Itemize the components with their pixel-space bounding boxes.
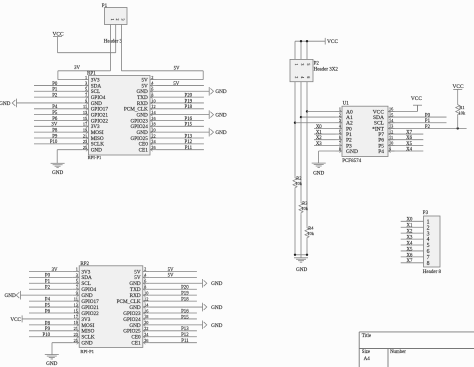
wire VCC to P1 pin 2	[58, 25, 116, 53]
svg-text:20: 20	[144, 320, 148, 325]
wire/net P20 RP1 pin 8	[157, 94, 204, 99]
svg-text:P9: P9	[52, 134, 58, 139]
svg-text:26: 26	[151, 145, 156, 150]
wire/net X4 to P3 pin 5	[401, 241, 424, 246]
connector P1 Header 3	[102, 4, 127, 25]
node junction A1 on column B	[300, 116, 302, 118]
svg-text:P15: P15	[181, 315, 189, 320]
wire/net P19 RP1 pin 10	[157, 99, 204, 104]
svg-text:8: 8	[427, 261, 430, 267]
svg-text:10k: 10k	[459, 110, 466, 115]
wire/net X2 to U1 pin 6	[314, 136, 336, 141]
svg-text:P11: P11	[185, 146, 193, 151]
svg-text:GND: GND	[211, 305, 222, 311]
wire/net X6 U1 pin 11	[388, 136, 423, 141]
wire RP1 pin25 to ground	[57, 150, 82, 164]
wire/net P10 to RP1 pin 23	[34, 140, 82, 145]
svg-text:6: 6	[339, 135, 342, 140]
svg-text:P3: P3	[423, 211, 429, 216]
net 3V rail	[58, 66, 111, 79]
svg-text:VCC: VCC	[10, 317, 21, 323]
svg-text:GND: GND	[91, 148, 102, 154]
resistor R4 10k	[305, 226, 315, 240]
svg-text:10: 10	[144, 290, 148, 295]
power port VCC (top left)	[52, 31, 63, 52]
wire RP1 pin1 3V	[58, 79, 82, 81]
connector P3 Header 8	[423, 211, 442, 275]
svg-text:10: 10	[151, 98, 155, 103]
wire R1 to P2 net	[457, 116, 459, 128]
wire/net P4 RP2 pin 11	[29, 298, 73, 303]
svg-text:P10: P10	[43, 333, 51, 338]
svg-text:P2: P2	[425, 125, 431, 130]
svg-text:14: 14	[389, 118, 394, 123]
node junction A0 on column C	[306, 110, 308, 112]
svg-text:X5: X5	[407, 247, 413, 252]
svg-text:21: 21	[83, 133, 87, 138]
svg-text:P6: P6	[45, 309, 51, 314]
wire/net P11 RP1 pin 26	[157, 146, 204, 151]
svg-text:P1: P1	[45, 280, 51, 285]
svg-text:P13: P13	[185, 134, 193, 139]
wire/net P19 RP2 pin 10	[149, 292, 197, 297]
wire/net P6 RP2 pin 15	[29, 309, 73, 314]
svg-text:X7: X7	[407, 259, 413, 264]
wire/net X0 to P3 pin 1	[401, 218, 424, 223]
svg-text:GND: GND	[346, 149, 358, 155]
wire A0 to column C	[307, 110, 336, 112]
svg-text:16: 16	[389, 107, 394, 112]
wire/net P1 to RP1 pin 5	[34, 88, 82, 93]
svg-text:10k: 10k	[295, 181, 302, 186]
svg-text:X3: X3	[407, 235, 413, 240]
svg-text:GND: GND	[211, 323, 222, 329]
svg-text:14: 14	[151, 110, 156, 115]
svg-text:X4: X4	[407, 241, 413, 246]
svg-text:6: 6	[151, 87, 154, 92]
wire/net P5 to RP1 pin 13	[34, 111, 82, 116]
label Header 3	[104, 39, 123, 44]
wire/net P6 to RP1 pin 15	[34, 117, 82, 122]
wire/net P16 RP1 pin 16	[157, 117, 204, 122]
svg-text:3: 3	[121, 19, 126, 21]
ground symbol below resistors	[294, 258, 308, 273]
svg-text:P1: P1	[102, 4, 108, 9]
svg-text:GND: GND	[5, 293, 16, 299]
wire/net P2 U1 *INT to R1	[388, 125, 467, 130]
svg-text:5V: 5V	[168, 274, 174, 279]
svg-text:P12: P12	[185, 140, 193, 145]
wire RP2 pin25 to ground	[52, 343, 73, 355]
svg-text:10k: 10k	[307, 231, 314, 236]
svg-text:1: 1	[294, 64, 298, 66]
svg-text:P6: P6	[52, 117, 58, 122]
wire A1 to column B	[301, 116, 336, 118]
svg-text:X2: X2	[407, 230, 413, 235]
svg-text:P13: P13	[181, 327, 189, 332]
ground GND arrow right of RP1 pin 20	[157, 128, 227, 137]
svg-text:P2: P2	[45, 286, 51, 291]
svg-text:P19: P19	[185, 99, 193, 104]
resistor R2 10k	[293, 176, 303, 190]
wire/net X3 to U1 pin 7	[314, 142, 336, 147]
svg-text:22: 22	[144, 326, 148, 331]
svg-text:P16: P16	[181, 309, 189, 314]
svg-text:11: 11	[83, 104, 87, 109]
wire/net P0 to RP1 pin 3	[34, 82, 82, 87]
svg-text:P10: P10	[50, 140, 58, 145]
wire/net X7 U1 pin 12	[388, 130, 423, 135]
svg-text:P4: P4	[52, 105, 58, 110]
svg-text:R4: R4	[308, 226, 314, 231]
net 5V rail	[121, 66, 203, 79]
svg-text:GND: GND	[215, 89, 226, 95]
wire/net P2 RP2 pin 7	[29, 286, 73, 291]
svg-text:P1: P1	[52, 88, 58, 93]
svg-text:5: 5	[306, 64, 310, 66]
svg-text:Title: Title	[362, 334, 372, 339]
wire P2 column A (x=295) down to resistor R2	[294, 82, 296, 177]
wire/net P12 RP1 pin 24	[157, 140, 204, 145]
svg-text:R2: R2	[296, 176, 301, 181]
svg-text:X6: X6	[406, 136, 412, 141]
svg-text:2: 2	[151, 75, 153, 80]
svg-text:P2: P2	[314, 62, 320, 67]
svg-text:P5: P5	[45, 303, 51, 308]
svg-text:19: 19	[83, 127, 87, 132]
wire/net P15 RP2 pin 18	[149, 315, 197, 320]
power port VCC at RP2 pin 17	[10, 315, 72, 322]
svg-text:X0: X0	[407, 218, 413, 223]
svg-text:A4: A4	[364, 357, 371, 362]
ground GND arrow right of RP2 pin 20	[149, 321, 222, 330]
svg-text:16: 16	[151, 116, 156, 121]
svg-text:6: 6	[144, 279, 147, 284]
svg-text:GND: GND	[215, 130, 226, 136]
svg-text:Size: Size	[362, 350, 370, 355]
svg-text:14: 14	[144, 302, 149, 307]
wire P2 column B (x=301) down to resistor R3	[300, 82, 302, 202]
svg-text:12: 12	[151, 104, 155, 109]
svg-text:P18: P18	[185, 105, 193, 110]
ground symbol below RP1	[51, 163, 65, 176]
svg-text:10: 10	[389, 141, 393, 146]
svg-text:11: 11	[74, 296, 78, 301]
ground GND arrow right of RP2 pin 14	[149, 303, 222, 312]
svg-text:3V: 3V	[74, 66, 80, 71]
svg-text:GND: GND	[0, 101, 11, 107]
wire VCC feed for P2 header	[295, 41, 325, 59]
wire/net P0 RP2 pin 3	[29, 274, 73, 279]
wire/net X2 to P3 pin 3	[401, 230, 424, 235]
svg-text:X6: X6	[407, 253, 413, 258]
wire/net 3V to RP1 pin 17	[34, 123, 82, 128]
svg-text:3: 3	[300, 64, 304, 66]
svg-text:24: 24	[151, 139, 156, 144]
wire/net P11 RP2 pin 26	[149, 339, 197, 344]
title block text Title	[362, 334, 372, 339]
svg-text:GND: GND	[52, 170, 63, 176]
wire/net P13 RP2 pin 22	[149, 327, 197, 332]
wire bottom tie of pull resistors	[295, 255, 307, 258]
resistor R3 10k	[299, 201, 309, 215]
svg-text:13: 13	[83, 110, 87, 115]
wire/net P12 RP2 pin 24	[149, 333, 197, 338]
IC RP1 RPi-P1 connector block	[82, 72, 157, 161]
ground GND arrow right of RP2 pin 6	[149, 279, 222, 288]
svg-text:GND: GND	[81, 341, 92, 347]
ground symbol below RP2	[45, 355, 59, 367]
svg-text:P4: P4	[45, 298, 51, 303]
svg-text:P1: P1	[425, 119, 431, 124]
svg-text:24: 24	[144, 332, 149, 337]
svg-text:X1: X1	[407, 224, 413, 229]
wire/net X1 to P3 pin 2	[401, 224, 424, 229]
svg-text:21: 21	[74, 326, 78, 331]
wire/net P18 RP1 pin 12	[157, 105, 204, 110]
wire/net X4 U1 pin 9	[388, 147, 423, 152]
svg-text:12: 12	[389, 129, 393, 134]
power port VCC right of P2	[325, 38, 338, 45]
svg-text:4: 4	[151, 81, 154, 86]
svg-text:25: 25	[74, 338, 78, 343]
svg-text:P5: P5	[52, 111, 58, 116]
title block text Size	[362, 350, 370, 355]
svg-text:P18: P18	[181, 298, 189, 303]
svg-text:15: 15	[83, 116, 87, 121]
svg-text:U1: U1	[343, 101, 350, 106]
wire/net 5V RP2 pin2	[149, 268, 197, 273]
svg-text:P9: P9	[45, 327, 51, 332]
connector P2 Header 3X2	[290, 59, 338, 81]
ground GND arrow left of RP2 pin 9	[5, 291, 73, 300]
wire/net X3 to P3 pin 4	[401, 235, 424, 240]
wire A2 to column A	[295, 122, 336, 124]
svg-text:5V: 5V	[173, 82, 179, 87]
wire/net P0 U1 SDA	[388, 113, 447, 118]
svg-text:3V: 3V	[51, 123, 57, 128]
wire/net X7 to P3 pin 8	[401, 259, 424, 264]
svg-text:P11: P11	[181, 339, 189, 344]
node junction A2 on column A	[294, 122, 296, 124]
svg-text:P12: P12	[181, 333, 189, 338]
svg-text:26: 26	[144, 338, 149, 343]
svg-text:P20: P20	[181, 286, 189, 291]
svg-text:4: 4	[144, 273, 147, 278]
svg-text:13: 13	[74, 302, 78, 307]
wire/net P16 RP2 pin 16	[149, 309, 197, 314]
wire/net P10 RP2 pin 23	[29, 333, 73, 338]
svg-text:19: 19	[74, 320, 78, 325]
wire/net X6 to P3 pin 7	[401, 253, 424, 258]
svg-text:25: 25	[83, 145, 87, 150]
svg-text:GND: GND	[46, 361, 57, 367]
svg-text:X2: X2	[316, 136, 322, 141]
svg-text:P8: P8	[52, 129, 58, 134]
svg-text:15: 15	[389, 112, 393, 117]
svg-text:X4: X4	[406, 147, 412, 152]
svg-text:Header 8: Header 8	[423, 270, 442, 275]
wire R4 to bottom tie	[306, 239, 308, 254]
title block text Number	[390, 350, 406, 355]
svg-text:12: 12	[144, 296, 148, 301]
svg-text:5V: 5V	[168, 268, 174, 273]
svg-text:1: 1	[76, 267, 78, 272]
ground GND arrow right of RP1 pin 6	[157, 87, 227, 96]
svg-text:R3: R3	[302, 201, 308, 206]
svg-text:18: 18	[144, 314, 148, 319]
svg-text:X7: X7	[406, 130, 412, 135]
wire P1 pin 3 to 5V rail	[120, 25, 122, 71]
svg-text:20: 20	[151, 127, 155, 132]
svg-text:5V: 5V	[174, 66, 180, 71]
svg-text:2: 2	[115, 19, 120, 21]
svg-text:P20: P20	[185, 94, 193, 99]
resistor R1 10k	[456, 103, 466, 116]
svg-text:X0: X0	[316, 125, 322, 130]
svg-text:4: 4	[339, 124, 342, 129]
svg-text:10k: 10k	[301, 206, 308, 211]
wire/net X5 U1 pin 10	[388, 142, 423, 147]
svg-text:1: 1	[110, 19, 115, 21]
wire/net P15 RP1 pin 18	[157, 123, 204, 128]
wire/net 5V RP1 pin4	[157, 82, 204, 87]
svg-text:3V: 3V	[52, 268, 58, 273]
wire/net P9 to RP1 pin 21	[34, 134, 82, 139]
wire U1 GND pin 8 to ground	[319, 151, 336, 163]
svg-text:P0: P0	[425, 113, 431, 118]
svg-text:Header 3X2: Header 3X2	[314, 67, 339, 72]
wire/net 5V RP2 pin4	[149, 274, 197, 279]
wire/net P20 RP2 pin 8	[149, 286, 197, 291]
IC RP2 RPi-P1 connector block	[73, 262, 150, 354]
svg-text:16: 16	[144, 308, 149, 313]
svg-text:VCC: VCC	[327, 39, 338, 45]
wire P2 column C (x=307) down to resistor R4	[306, 82, 308, 227]
power port VCC above R1	[452, 84, 463, 103]
svg-text:18: 18	[151, 122, 155, 127]
svg-text:P15: P15	[185, 123, 193, 128]
node junction R1 bottom	[457, 127, 459, 129]
svg-text:7: 7	[339, 141, 342, 146]
ground GND arrow left of RP1 pin 9	[0, 99, 82, 108]
svg-text:VCC: VCC	[411, 96, 422, 102]
svg-text:P4: P4	[378, 149, 384, 155]
wire/net X1 to U1 pin 5	[314, 130, 336, 135]
ground GND arrow right of RP1 pin 14	[157, 110, 227, 119]
wire/net P4 to RP1 pin 11	[34, 105, 82, 110]
svg-text:P16: P16	[185, 117, 193, 122]
svg-text:Header 3: Header 3	[104, 39, 123, 44]
svg-text:X5: X5	[406, 142, 412, 147]
svg-text:GND: GND	[313, 170, 324, 176]
wire/net P8 RP2 pin 19	[29, 321, 73, 326]
wire/net X0 to U1 pin 4	[314, 125, 336, 130]
junction dots on VCC feed	[300, 40, 308, 42]
svg-text:GND: GND	[211, 281, 222, 287]
IC U1 PCF8574	[336, 101, 395, 164]
wire/net P9 RP2 pin 21	[29, 327, 73, 332]
svg-text:23: 23	[74, 332, 78, 337]
svg-text:R1: R1	[459, 105, 464, 110]
svg-text:15: 15	[74, 308, 78, 313]
wire R3 to bottom tie	[300, 214, 302, 254]
wire R2 to bottom tie	[294, 189, 296, 254]
wire/net P2 to RP1 pin 7	[34, 94, 82, 99]
wire/net 3V RP2 pin1	[29, 268, 73, 273]
svg-text:P0: P0	[52, 82, 58, 87]
svg-text:P8: P8	[45, 321, 51, 326]
wire/net P1 U1 SCL	[388, 119, 447, 124]
svg-text:GND: GND	[296, 267, 307, 273]
svg-text:6: 6	[306, 76, 310, 78]
svg-text:CE1: CE1	[131, 341, 141, 347]
junction dots bottom tie	[294, 254, 308, 256]
svg-text:4: 4	[300, 76, 304, 78]
wire P1 pin 1 to 3V rail	[110, 25, 112, 71]
title block frame	[359, 332, 474, 367]
svg-text:X1: X1	[316, 130, 322, 135]
svg-text:23: 23	[83, 139, 87, 144]
svg-text:PCF8574: PCF8574	[342, 159, 361, 164]
svg-text:CE1: CE1	[139, 148, 149, 154]
svg-text:1: 1	[85, 75, 87, 80]
svg-text:2: 2	[294, 76, 298, 78]
wire/net P1 RP2 pin 5	[29, 280, 73, 285]
wire/net P13 RP1 pin 22	[157, 134, 204, 139]
svg-text:22: 22	[151, 133, 155, 138]
wire RP1 pin2 5V to rail	[157, 79, 204, 81]
wire/net X5 to P3 pin 6	[401, 247, 424, 252]
svg-text:P0: P0	[45, 274, 51, 279]
svg-text:P2: P2	[52, 94, 58, 99]
wire/net P18 RP2 pin 12	[149, 298, 197, 303]
svg-text:GND: GND	[215, 113, 226, 119]
svg-text:X3: X3	[316, 142, 322, 147]
wire/net P8 to RP1 pin 19	[34, 129, 82, 134]
wire/net P5 RP2 pin 13	[29, 303, 73, 308]
svg-text:2: 2	[144, 267, 146, 272]
svg-text:RPI-P1: RPI-P1	[88, 155, 102, 160]
svg-text:13: 13	[389, 124, 393, 129]
power port VCC above U1 pin 16	[388, 96, 422, 111]
svg-text:RPI-P1: RPI-P1	[80, 349, 94, 354]
svg-text:P19: P19	[181, 292, 189, 297]
title block text A4	[364, 357, 371, 362]
svg-text:Number: Number	[390, 350, 406, 355]
ground symbol below U1	[312, 163, 326, 176]
